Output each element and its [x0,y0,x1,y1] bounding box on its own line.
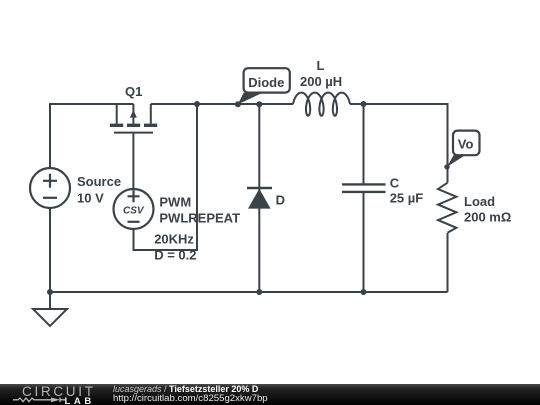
pwm source V2 [114,189,154,229]
junction: cap top [361,101,367,107]
flag Vo [444,131,479,170]
ground [33,292,67,326]
svg-text:25 µF: 25 µF [390,190,424,205]
wire: inductor to top-right corner down to load [350,104,448,183]
logo text LAB [65,397,95,405]
junction: gate return node [194,101,200,107]
svg-text:10 V: 10 V [77,191,104,206]
CircuitLab logo text CIRCUIT [22,381,96,402]
footer bar [0,384,540,405]
svg-text:Q1: Q1 [125,84,142,99]
wire: load bottom to bottom rail [447,233,449,292]
inductor L [293,93,350,116]
flag Diode [235,68,290,107]
wire: Q1 source to diode node and inductor [151,103,293,105]
svg-text:D: D [276,193,285,208]
diode D [247,104,272,292]
transistor Q1 [110,104,157,133]
voltage source V1 [30,168,70,208]
svg-text:Source: Source [77,174,121,189]
wire: bottom ground rail [50,291,448,293]
svg-text:L: L [317,58,325,73]
svg-text:PWLREPEAT: PWLREPEAT [159,210,240,225]
svg-text:Load: Load [464,194,495,209]
svg-text:C: C [390,176,400,191]
footer title line [113,385,258,394]
footer url line [113,394,268,403]
junction: diode bottom [256,289,262,295]
junction: diode node [256,101,262,107]
svg-text:Vo: Vo [458,137,474,152]
svg-text:D = 0.2: D = 0.2 [154,248,196,263]
capacitor C [342,104,386,292]
svg-text:200 µH: 200 µH [300,74,342,89]
wire: V1 bottom to ground rail [49,209,51,292]
wire: V2 bottom return up to source node [134,104,198,250]
svg-text:20KHz: 20KHz [154,232,194,247]
junction: ground node [47,289,53,295]
svg-text:CSV: CSV [123,206,145,217]
svg-text:200 mΩ: 200 mΩ [464,210,511,225]
svg-text:Diode: Diode [248,75,284,90]
wire: gate of Q1 down to V2 [132,134,134,189]
logo squiggle: resistor + diode [13,396,65,405]
junction: cap bottom [361,289,367,295]
resistor Load [438,183,456,233]
wire: V1 top to Q1 [50,104,133,168]
svg-text:PWM: PWM [159,195,191,210]
